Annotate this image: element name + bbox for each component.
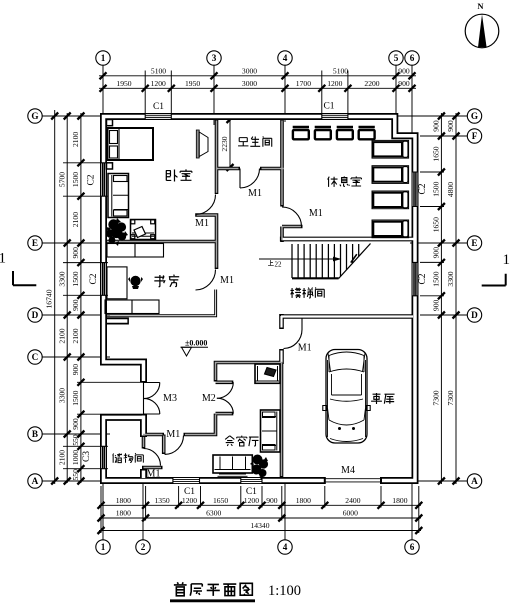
svg-text:B: B bbox=[32, 429, 38, 439]
svg-text:1500: 1500 bbox=[71, 390, 80, 405]
svg-text:5: 5 bbox=[394, 53, 399, 63]
svg-text:900: 900 bbox=[431, 120, 440, 132]
svg-text:7300: 7300 bbox=[431, 390, 440, 405]
svg-text:900: 900 bbox=[71, 299, 80, 311]
svg-text:5700: 5700 bbox=[58, 172, 67, 187]
svg-text:1350: 1350 bbox=[155, 496, 170, 505]
svg-text:M1: M1 bbox=[298, 343, 312, 354]
svg-text:3: 3 bbox=[212, 53, 217, 63]
svg-text:1200: 1200 bbox=[182, 496, 197, 505]
svg-text:900: 900 bbox=[431, 300, 440, 312]
svg-text:6300: 6300 bbox=[206, 509, 221, 518]
svg-text:M1: M1 bbox=[147, 469, 161, 480]
svg-text:F: F bbox=[472, 131, 478, 141]
svg-text:C2: C2 bbox=[89, 273, 99, 284]
svg-text:3300: 3300 bbox=[58, 271, 67, 286]
svg-text:A: A bbox=[32, 476, 39, 486]
svg-text:G: G bbox=[31, 111, 38, 121]
svg-text:M1: M1 bbox=[220, 275, 234, 286]
svg-text:1700: 1700 bbox=[296, 79, 311, 88]
svg-text:1500: 1500 bbox=[431, 181, 440, 196]
svg-text:2400: 2400 bbox=[345, 496, 360, 505]
svg-text:2100: 2100 bbox=[71, 132, 80, 147]
svg-text:900: 900 bbox=[71, 418, 80, 430]
svg-text:3300: 3300 bbox=[446, 271, 455, 286]
svg-text:1800: 1800 bbox=[116, 496, 131, 505]
svg-text:±0.000: ±0.000 bbox=[185, 339, 207, 348]
svg-text:1200: 1200 bbox=[327, 79, 342, 88]
svg-text:1: 1 bbox=[0, 251, 6, 267]
svg-text:1: 1 bbox=[101, 53, 106, 63]
svg-text:900: 900 bbox=[71, 364, 80, 376]
svg-text:C1: C1 bbox=[323, 102, 334, 112]
svg-text:C1: C1 bbox=[153, 102, 164, 112]
svg-text:1200: 1200 bbox=[151, 79, 166, 88]
svg-text:900: 900 bbox=[446, 120, 455, 132]
svg-text:1: 1 bbox=[101, 542, 106, 552]
svg-text:6: 6 bbox=[410, 542, 415, 552]
svg-text:6: 6 bbox=[410, 53, 415, 63]
svg-text:C3: C3 bbox=[82, 451, 92, 462]
svg-text:C1: C1 bbox=[246, 487, 257, 497]
svg-text:4: 4 bbox=[283, 542, 288, 552]
svg-text:1800: 1800 bbox=[392, 496, 407, 505]
svg-text:6000: 6000 bbox=[343, 509, 358, 518]
svg-text:550: 550 bbox=[71, 434, 80, 446]
svg-text:3000: 3000 bbox=[242, 67, 257, 76]
svg-text:14340: 14340 bbox=[251, 521, 270, 530]
svg-text:1500: 1500 bbox=[431, 271, 440, 286]
svg-text:1:100: 1:100 bbox=[268, 583, 301, 599]
svg-text:1950: 1950 bbox=[185, 79, 200, 88]
svg-text:1650: 1650 bbox=[213, 496, 228, 505]
svg-text:N: N bbox=[477, 1, 484, 11]
svg-text:G: G bbox=[471, 111, 478, 121]
svg-text:C2: C2 bbox=[87, 174, 97, 185]
svg-text:900: 900 bbox=[266, 496, 278, 505]
svg-text:22: 22 bbox=[275, 260, 283, 268]
svg-text:1500: 1500 bbox=[71, 172, 80, 187]
svg-text:D: D bbox=[471, 310, 478, 320]
svg-text:900: 900 bbox=[398, 67, 410, 76]
svg-text:M4: M4 bbox=[341, 465, 355, 476]
svg-text:E: E bbox=[471, 238, 477, 248]
svg-text:1800: 1800 bbox=[296, 496, 311, 505]
svg-text:1: 1 bbox=[503, 252, 511, 268]
svg-text:2100: 2100 bbox=[58, 450, 67, 465]
svg-text:2100: 2100 bbox=[71, 212, 80, 227]
svg-text:2: 2 bbox=[141, 542, 146, 552]
svg-text:4: 4 bbox=[283, 53, 288, 63]
svg-text:C1: C1 bbox=[184, 487, 195, 497]
svg-text:3000: 3000 bbox=[242, 79, 257, 88]
svg-text:3300: 3300 bbox=[58, 388, 67, 403]
svg-text:1200: 1200 bbox=[244, 496, 259, 505]
svg-text:M1: M1 bbox=[195, 218, 209, 229]
svg-text:1650: 1650 bbox=[431, 217, 440, 232]
svg-text:C: C bbox=[32, 352, 39, 362]
svg-text:4800: 4800 bbox=[446, 182, 455, 197]
svg-text:2200: 2200 bbox=[364, 79, 379, 88]
svg-text:900: 900 bbox=[71, 247, 80, 259]
svg-text:M1: M1 bbox=[166, 429, 180, 440]
svg-text:C2: C2 bbox=[418, 273, 428, 284]
svg-text:M2: M2 bbox=[202, 393, 216, 404]
svg-text:E: E bbox=[32, 238, 38, 248]
svg-text:M1: M1 bbox=[248, 188, 262, 199]
svg-text:5100: 5100 bbox=[151, 67, 166, 76]
svg-text:2100: 2100 bbox=[58, 328, 67, 343]
svg-text:A: A bbox=[471, 476, 478, 486]
svg-text:16740: 16740 bbox=[45, 289, 54, 308]
svg-text:D: D bbox=[32, 310, 39, 320]
svg-text:2230: 2230 bbox=[220, 136, 229, 151]
svg-text:5100: 5100 bbox=[333, 67, 348, 76]
svg-text:7300: 7300 bbox=[446, 390, 455, 405]
svg-text:900: 900 bbox=[398, 79, 410, 88]
svg-text:2100: 2100 bbox=[71, 328, 80, 343]
svg-text:550: 550 bbox=[71, 469, 80, 481]
svg-text:900: 900 bbox=[431, 247, 440, 259]
svg-text:1650: 1650 bbox=[431, 146, 440, 161]
svg-text:1800: 1800 bbox=[116, 509, 131, 518]
svg-text:M1: M1 bbox=[309, 208, 323, 219]
svg-text:1000: 1000 bbox=[71, 450, 80, 465]
svg-text:C2: C2 bbox=[418, 183, 428, 194]
svg-text:1950: 1950 bbox=[116, 79, 131, 88]
svg-text:1500: 1500 bbox=[71, 271, 80, 286]
svg-text:M3: M3 bbox=[163, 393, 177, 404]
